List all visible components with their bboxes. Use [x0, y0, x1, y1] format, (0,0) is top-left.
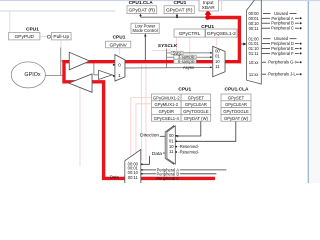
wire: stub and arrow into CPU1 GPyDAT (R)	[176, 16, 178, 18]
red junction dot	[205, 15, 210, 20]
pink control wire: GPyCTRL to Sync box	[176, 37, 178, 51]
highlighted red signal path	[64, 14, 239, 178]
output buffer triangle	[69, 74, 92, 92]
wire: SYSCLK to 6-sample box	[167, 60, 174, 62]
GPIOx pad ellipse	[11, 62, 45, 88]
svg-text:0: 0	[118, 62, 121, 68]
register table CPU1.CLA column	[221, 94, 251, 121]
junction dot on GPyDAT bus	[176, 16, 178, 18]
wire: Sync box to qualification mux input 00	[183, 52, 211, 54]
svg-text:1: 1	[118, 73, 121, 79]
svg-text:GPyDAT (R): GPyDAT (R)	[129, 8, 156, 14]
block 6-sample	[174, 59, 196, 63]
CPU select mux (rear copy)	[165, 126, 173, 164]
CPU select mux	[167, 126, 175, 164]
svg-text:-Reserved-: -Reserved-	[178, 149, 199, 154]
svg-text:CPU1: CPU1	[26, 26, 39, 32]
svg-text:11: 11	[169, 149, 174, 154]
register box GPyINV	[106, 41, 131, 48]
svg-text:10: 10	[169, 144, 174, 149]
red arrowhead into Input XBAR	[205, 9, 212, 15]
svg-text:-Reserved-: -Reserved-	[178, 144, 199, 149]
svg-text:CPU1.CLA: CPU1.CLA	[129, 0, 154, 6]
wire: inverter output to GPyINV mux input 1	[112, 74, 115, 77]
register box GPyDAT (R) CPU1	[164, 6, 194, 14]
svg-text:GPyGMUX1-2: GPyGMUX1-2	[153, 95, 180, 100]
wire: SYSCLK distribution bracket	[166, 49, 168, 68]
register box GPyCTRL	[174, 29, 205, 37]
input dots on qualification mux	[210, 52, 212, 54]
partial box edge right of Input XBAR	[221, 1, 223, 12]
wire: GPIOx pad to input path	[45, 74, 64, 76]
svg-text:Peripherals G-I: Peripherals G-I	[268, 60, 296, 65]
input dots on CPU select mux	[175, 135, 177, 137]
block 3-sample	[174, 55, 196, 59]
svg-text:01:11: 01:11	[249, 51, 260, 56]
top window edge light blue line	[0, 0, 320, 2]
wire: demux feed from red path	[241, 43, 243, 45]
svg-text:10: 10	[215, 59, 220, 64]
wire: SYSCLK to Sync box	[167, 52, 172, 54]
svg-text:GPyCTRL: GPyCTRL	[179, 31, 201, 37]
wire: stub and arrow into CLA GPyDAT (R)	[140, 16, 142, 18]
wire: GPyINV output to async row	[125, 67, 211, 70]
svg-text:CPU1: CPU1	[178, 87, 191, 93]
inverter triangle	[99, 70, 113, 79]
wire: SYSCLK to 3-sample box	[167, 56, 174, 58]
pink control wire: register select vertical B	[145, 65, 147, 161]
block Sync	[171, 51, 183, 54]
pink control wire: GPyPUD to pull-up circle	[40, 36, 48, 38]
svg-text:Peripherals J-L: Peripherals J-L	[268, 72, 296, 77]
svg-text:GPyMUX1-2: GPyMUX1-2	[155, 102, 179, 107]
svg-text:10:xx: 10:xx	[249, 60, 259, 65]
svg-text:Pull-Up: Pull-Up	[53, 34, 69, 40]
svg-text:GPyCLEAR: GPyCLEAR	[185, 102, 207, 107]
wire: output mux row 00:01 to Peripheral A	[142, 169, 156, 171]
svg-text:GPyINV: GPyINV	[110, 42, 128, 48]
pink control wire: register select vertical A	[140, 65, 142, 161]
svg-text:00:11: 00:11	[128, 175, 139, 180]
svg-text:Peripheral C: Peripheral C	[156, 176, 179, 181]
top-left pane horizontal rule	[0, 10, 115, 12]
register table CPU1 column 1	[152, 94, 182, 121]
right pane background	[309, 0, 320, 183]
register box GPyQSEL1-2	[206, 29, 237, 37]
input dots on GPyINV mux	[113, 64, 115, 66]
register table CPU1 column 2	[181, 94, 211, 121]
GPyINV mux	[115, 55, 125, 81]
pink control wire: Pull-Up down to pad wire	[60, 40, 62, 48]
output mux input dots	[141, 163, 143, 165]
qualification mux	[213, 46, 225, 76]
pull-up enable circle	[47, 35, 50, 38]
svg-text:CPU1: CPU1	[174, 0, 187, 6]
pink control wire: horizontal into Sync area	[152, 49, 171, 51]
wire: jog down to inverter	[94, 61, 99, 75]
svg-text:GPyDAT (W): GPyDAT (W)	[224, 116, 249, 121]
peripheral row terminal dots	[300, 17, 302, 75]
wire: qualified input bus to GPyDAT registers	[141, 16, 208, 18]
svg-text:GPyTOGGLE: GPyTOGGLE	[183, 109, 209, 114]
svg-text:GPyDIR: GPyDIR	[159, 109, 174, 114]
svg-text:GPyQSEL1-2: GPyQSEL1-2	[207, 31, 236, 37]
svg-text:Data: Data	[110, 175, 119, 180]
arrowhead into peripheral demux	[243, 43, 246, 46]
pink control wire: GPyCTRL to sample boxes	[189, 37, 191, 55]
wire: 6-sample box to qualification mux input 10	[196, 60, 211, 62]
svg-text:GPySET: GPySET	[188, 95, 205, 100]
wire: input buffer output to GPyINV mux input 0	[90, 60, 115, 62]
svg-text:CPU1.CLA: CPU1.CLA	[225, 87, 250, 93]
component outlines redrawn over red path	[69, 46, 225, 183]
peripheral demux (right)	[247, 0, 262, 84]
svg-text:6-sample: 6-sample	[178, 59, 196, 64]
svg-text:GPyCLEAR: GPyCLEAR	[225, 102, 247, 107]
svg-text:01: 01	[215, 53, 220, 58]
top-left pane vertical rule	[9, 11, 11, 34]
pink control wire: GPyINV select stub	[119, 48, 121, 55]
wire: CLA GPyDAT(W) column down to CPU select mux input 01	[177, 121, 236, 141]
svg-text:GPyTOGGLE: GPyTOGGLE	[223, 109, 249, 114]
svg-text:00:10: 00:10	[128, 170, 139, 175]
svg-text:GPyDAT (R): GPyDAT (R)	[166, 8, 193, 14]
wire: CPU1 GPyDAT(W) column down to CPU select mux input 00	[178, 121, 201, 136]
wire: into input buffer	[61, 60, 70, 62]
wire: pad riser	[60, 48, 62, 76]
svg-text:CPU1: CPU1	[113, 34, 126, 40]
block Input XBAR	[199, 0, 218, 11]
peripheral rows right of demux	[262, 13, 299, 74]
svg-text:Async: Async	[183, 65, 194, 70]
block Pull-Up	[51, 33, 71, 40]
svg-text:Peripheral F: Peripheral F	[271, 51, 294, 56]
svg-text:GPyPUD: GPyPUD	[15, 34, 35, 40]
block Low Power Mode Control	[131, 23, 159, 33]
wire: qualification mux output	[225, 61, 239, 63]
output mux (bottom left)	[125, 150, 141, 185]
wire: 3-sample box to qualification mux input 01	[196, 56, 211, 58]
svg-text:00: 00	[169, 133, 174, 138]
pink control wire: GPyMUX select down to output mux	[136, 104, 152, 159]
svg-text:Input: Input	[203, 0, 214, 6]
svg-text:XBAR: XBAR	[202, 5, 216, 11]
svg-text:00:11: 00:11	[249, 26, 260, 31]
svg-text:Direction: Direction	[140, 132, 159, 138]
input buffer triangle	[69, 52, 89, 70]
svg-text:GPyCSEL1-4: GPyCSEL1-4	[154, 116, 180, 121]
register box GPyDAT (R) CLA	[127, 6, 157, 14]
arrowhead into Low Power Mode Control	[144, 34, 147, 37]
wire: Direction output to label	[160, 135, 167, 137]
svg-text:SYSCLK: SYSCLK	[158, 43, 178, 49]
svg-text:GPySET: GPySET	[228, 95, 245, 100]
pink control wire: GPyQSEL to qualification mux	[216, 37, 218, 46]
register box GPyPUD	[9, 33, 40, 40]
pink control wire: GPyGMUX select down to output mux	[131, 98, 152, 159]
svg-text:11: 11	[215, 64, 220, 69]
wire: Data output to label	[163, 152, 167, 154]
svg-text:GPIOx: GPIOx	[24, 72, 40, 78]
svg-text:Peripheral C: Peripheral C	[271, 26, 294, 31]
svg-text:01: 01	[169, 138, 174, 143]
svg-text:11:xx: 11:xx	[249, 72, 258, 77]
page background	[0, 0, 320, 183]
svg-text:GPyDAT (W): GPyDAT (W)	[184, 116, 209, 121]
pink control wire: output buffer enable from Direction	[79, 88, 81, 167]
wire: Data down to output mux input 00:00	[142, 156, 150, 164]
right pane divider blue line	[307, 0, 309, 183]
svg-text:Mode Control: Mode Control	[133, 28, 158, 33]
arrowhead into CPU select mux input 00	[176, 135, 179, 137]
wire: output mux row 00:10 to Peripheral B	[142, 173, 156, 175]
wire: Low Power Mode Control tap	[144, 34, 146, 62]
svg-text:Data: Data	[152, 151, 162, 157]
